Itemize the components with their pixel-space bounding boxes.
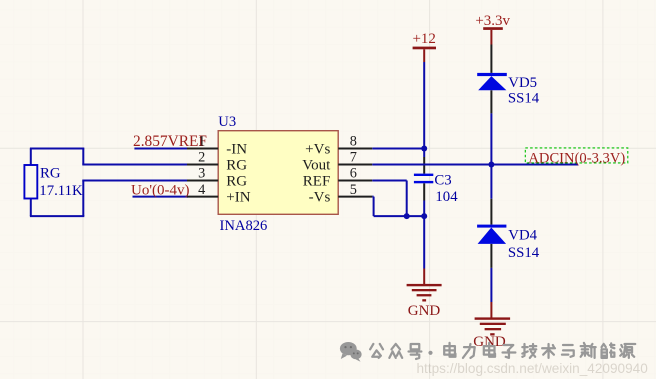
capacitor C3 104 [414,149,458,217]
svg-text:VD4: VD4 [508,228,537,244]
svg-text:+Vs: +Vs [305,141,330,157]
svg-text:RG: RG [226,157,247,173]
wire Vout node to VD4 [490,165,492,199]
junction pin8/+12 [421,146,427,152]
power +12 [412,31,436,62]
wire pin8 to +12 rail [372,148,424,150]
diode VD5 SS14 [477,45,540,114]
ground GND (right) [473,302,510,350]
svg-text:SS14: SS14 [508,245,540,261]
svg-text:U3: U3 [218,114,236,130]
wire bottom to GND [423,216,425,268]
wire pin5 -Vs down [372,197,373,217]
diode VD4 SS14 [477,199,540,268]
svg-text:4: 4 [198,182,205,198]
ground GND (left) [407,269,442,320]
svg-text:INA826: INA826 [220,218,268,234]
svg-text:RG: RG [40,166,61,182]
watermark wechat icon [340,342,362,362]
wire net 2.857VREF to pin 1 [134,148,188,150]
wire Vout to ADCIN [372,164,578,166]
svg-text:2: 2 [198,150,205,166]
svg-text:ADCIN(0-3.3V): ADCIN(0-3.3V) [528,150,625,166]
svg-text:+12: +12 [412,31,435,47]
pin 5 (-Vs) [309,182,373,206]
net label Uo'(0-4v) [131,183,190,199]
wire resistor-bottom to pin 3 [30,181,188,217]
svg-text:+IN: +IN [226,189,250,205]
pin 7 (Vout) [302,150,372,174]
watermark url [417,361,649,376]
pin 1 (-IN) [187,134,247,158]
wire bottom junction run [374,215,425,217]
svg-text:-Vs: -Vs [309,189,331,205]
pin 6 (REF) [303,166,373,190]
net label ADCIN(0-3.3V) [525,148,628,166]
svg-text:5: 5 [350,182,357,198]
pin 4 (+IN) [187,182,251,206]
watermark text 公众号 [370,343,635,359]
junction REF/bottom [404,213,410,219]
net label 2.857VREF [133,133,207,150]
pin 3 (RG) [187,166,247,190]
wire net Uo to pin 4 [133,196,189,198]
svg-text:8: 8 [350,134,357,150]
op-amp U3 INA826 body [218,114,338,234]
resistor RG 17.11K [24,165,83,199]
svg-text:RG: RG [226,173,247,189]
wire VD5 to Vout node [490,113,492,164]
svg-text:7: 7 [350,150,357,166]
power +3.3v [475,13,510,44]
svg-text:Vout: Vout [302,157,331,173]
svg-text:104: 104 [435,189,458,205]
svg-text:GND: GND [408,303,441,319]
svg-text:6: 6 [350,166,357,182]
wire VD4 to GND [490,268,492,302]
svg-text:-IN: -IN [226,141,247,157]
svg-text:SS14: SS14 [508,91,540,107]
wire resistor-top to pin 2 [30,149,188,167]
svg-text:VD5: VD5 [508,75,537,91]
svg-text:1: 1 [198,134,205,150]
wire pin6 REF down [372,181,406,217]
junction rail/bottom [421,213,427,219]
svg-text:3: 3 [198,166,205,182]
svg-text:+3.3v: +3.3v [475,13,510,29]
wire +12 rail [423,62,425,149]
junction Vout/VD rail [488,162,494,168]
pin 2 (RG) [187,150,247,174]
svg-text:C3: C3 [434,173,451,189]
svg-text:https://blog.csdn.net/weixin_4: https://blog.csdn.net/weixin_42090940 [417,361,649,376]
pin 8 (+Vs) [305,134,372,158]
svg-text:Uo'(0-4v): Uo'(0-4v) [131,183,190,199]
svg-text:17.11K: 17.11K [39,183,83,199]
svg-text:REF: REF [303,173,331,189]
